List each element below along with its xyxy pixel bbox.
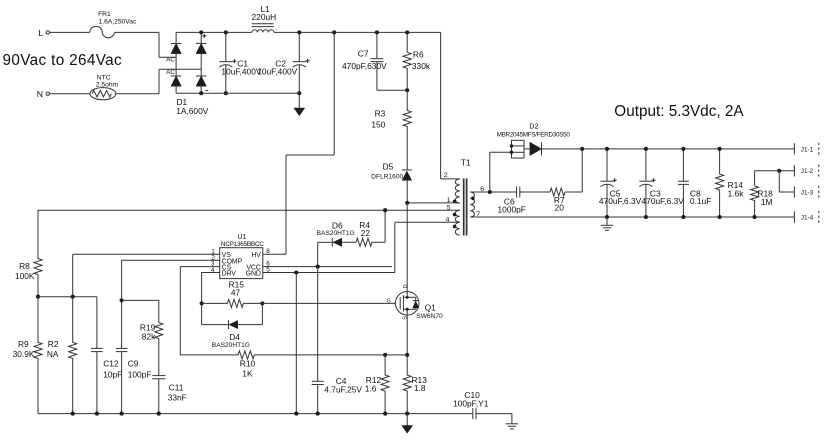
ground earth (Y-cap) — [511, 414, 513, 424]
wire drain — [406, 203, 408, 292]
svg-text:D2: D2 — [529, 123, 538, 130]
svg-text:J1-2: J1-2 — [801, 168, 814, 175]
resistor R19 82k — [155, 323, 163, 339]
connector J1-1 — [793, 143, 795, 154]
resistor R12 1.6 — [381, 355, 389, 414]
svg-text:470uF,6.3V: 470uF,6.3V — [642, 196, 685, 206]
wire output positive rail — [582, 148, 794, 150]
wire gate — [243, 302, 395, 304]
diode D5 DFLR1600 — [402, 169, 412, 171]
resistor R6 330k — [403, 32, 411, 90]
wire output return rail (pin7) — [470, 216, 794, 218]
node polarity dot secondary — [471, 197, 475, 201]
svg-text:82k: 82k — [142, 332, 156, 342]
wire D6 cathode to VCC — [317, 242, 319, 266]
node R2 / VS pin junction — [71, 295, 75, 299]
node bridge right bottom — [199, 91, 203, 95]
winding T1 primary (pins 2-1) — [455, 179, 460, 203]
diode D6 BAS20HT1G — [318, 241, 333, 243]
svg-text:33nF: 33nF — [168, 392, 187, 402]
node R8 bottom / VS net — [36, 295, 40, 299]
diode D4 BAS20HT1G — [201, 303, 203, 324]
diode D1d (bridge right bottom) — [196, 76, 206, 86]
svg-text:D6: D6 — [332, 221, 343, 231]
wire L to fuse — [50, 31, 90, 33]
svg-text:NA: NA — [47, 349, 59, 359]
resistor R15 47 — [202, 299, 244, 307]
svg-text:1.6A,250Vac: 1.6A,250Vac — [99, 18, 137, 25]
winding T1 aux lower (below pin 4) — [455, 222, 460, 235]
svg-text:FR1: FR1 — [98, 11, 111, 18]
svg-text:20: 20 — [555, 202, 565, 212]
wire C10 to earth — [476, 413, 512, 415]
svg-text:47: 47 — [231, 287, 241, 297]
capacitor C6 1000pF — [516, 187, 518, 198]
diode D2 MBR2045MFS/FERD30S50 package — [512, 140, 525, 158]
svg-text:DFLR1600: DFLR1600 — [371, 173, 403, 180]
svg-text:J1-1: J1-1 — [801, 146, 814, 153]
node R12 junction — [383, 353, 387, 357]
node GND rail junctions — [294, 412, 298, 416]
wire top DC rail (L1 to pin2 corner) — [274, 31, 441, 33]
diode D1b (bridge left bottom) — [171, 76, 181, 86]
fuse FR1 — [90, 26, 115, 38]
node source/R10/R13 junction — [405, 353, 409, 357]
svg-text:220uH: 220uH — [252, 12, 277, 22]
wire CS pin — [180, 266, 219, 268]
svg-text:470pF,630V: 470pF,630V — [342, 61, 387, 71]
svg-text:NCP1365BBCC: NCP1365BBCC — [221, 241, 265, 248]
svg-text:10uF,400V: 10uF,400V — [221, 67, 261, 77]
node C7 top — [375, 30, 379, 34]
ground primary (under C2) — [298, 93, 300, 108]
capacitor C9 100pF — [121, 300, 123, 348]
wire C6 to R7 — [520, 191, 550, 193]
svg-text:1.6k: 1.6k — [728, 189, 745, 199]
resistor R4 22 — [342, 238, 385, 246]
ground primary (main) — [406, 414, 408, 426]
wire pin1 to D5/drain node — [407, 202, 460, 204]
svg-text:G: G — [387, 299, 391, 305]
svg-text:30.9K: 30.9K — [13, 349, 35, 359]
wire R7 to D2 cathode node — [565, 191, 582, 193]
svg-text:SW6N70: SW6N70 — [416, 313, 443, 320]
node VCC/D6/C4 junction — [316, 265, 320, 269]
resistor R13 1.8 — [403, 355, 411, 414]
connector J1-3 — [793, 186, 795, 197]
wire GND pin to aux return — [263, 272, 395, 274]
wire R4 to aux winding — [384, 210, 386, 242]
resistor R3 150 — [403, 90, 411, 170]
wire D5 anode to primary node — [406, 180, 408, 203]
svg-text:8: 8 — [266, 248, 270, 255]
wire D2 anode branch — [489, 152, 491, 192]
node polarity dot aux — [453, 213, 457, 217]
node C1 top — [224, 30, 228, 34]
transformer core — [464, 179, 467, 236]
svg-text:BAS20HT1G: BAS20HT1G — [212, 342, 250, 349]
capacitor C5 470uF,6.3V — [606, 149, 608, 181]
resistor R8 100K — [34, 210, 42, 297]
svg-text:4.7uF,25V: 4.7uF,25V — [324, 384, 362, 394]
svg-text:100pF: 100pF — [128, 370, 152, 380]
transistor Q1 SW6N70 — [395, 292, 419, 316]
wire top DC rail (bridge + to L1) — [176, 31, 252, 33]
resistor R7 20 — [550, 188, 565, 196]
wire primary DC bottom rail — [176, 92, 299, 94]
svg-text:1M: 1M — [761, 197, 773, 207]
winding T1 aux upper (pins 5-4) — [455, 210, 460, 222]
wire HV feed from DC bus — [333, 32, 335, 155]
diode D1c (bridge right top) — [196, 43, 206, 53]
node R6/C7/R3 junction — [405, 88, 409, 92]
svg-text:C11: C11 — [169, 382, 184, 392]
svg-text:AC: AC — [166, 57, 175, 64]
svg-text:C7: C7 — [358, 48, 369, 58]
bridge rectifier D1 package — [175, 32, 177, 93]
node GND branch — [294, 270, 298, 274]
svg-text:1A,600V: 1A,600V — [176, 106, 209, 116]
node C2 top — [297, 30, 301, 34]
node polarity dot pin1 side — [453, 200, 457, 204]
wire VS net — [38, 296, 97, 298]
capacitor C12 10pF — [96, 297, 98, 349]
resistor R2 NA — [69, 297, 77, 414]
capacitor C3 470uF,6.3V — [645, 149, 647, 181]
node D2 branch — [488, 190, 492, 194]
svg-text:1.6: 1.6 — [365, 384, 377, 394]
svg-text:T1: T1 — [461, 157, 471, 167]
svg-text:Output: 5.3Vdc, 2A: Output: 5.3Vdc, 2A — [614, 103, 744, 120]
capacitor C7 470pF,630V — [376, 32, 378, 58]
node pin1/D5/drain junction — [405, 201, 409, 205]
wire R18 to J1-2 — [755, 170, 795, 172]
svg-text:R10: R10 — [240, 359, 256, 369]
op-amp U1 NCP1365BBCC body — [220, 248, 263, 279]
resistor R9 30.9K — [34, 297, 42, 414]
svg-text:GND: GND — [246, 270, 261, 277]
wire VCC pin — [263, 266, 392, 268]
node polarity dot aux lower — [453, 225, 457, 229]
capacitor C8 0.1uF — [682, 149, 684, 181]
wire primary pin2 from top rail — [440, 32, 442, 179]
pin label - output of bridge — [205, 89, 208, 91]
wire source to sense — [406, 315, 408, 355]
wire VS pin to divider — [73, 253, 220, 255]
wire COMP to R19 — [122, 299, 159, 301]
wire GND branch to ground rail — [295, 273, 297, 414]
node DRV/R15/D4 junction — [200, 301, 204, 305]
svg-text:D: D — [403, 284, 409, 288]
inductor L1 220uH — [252, 30, 274, 33]
svg-text:10uF,400V: 10uF,400V — [257, 67, 297, 77]
svg-text:0.1uF: 0.1uF — [690, 196, 711, 206]
svg-text:D5: D5 — [383, 162, 394, 172]
thermistor NTC 2.5ohm — [90, 88, 116, 100]
svg-text:AC: AC — [166, 69, 175, 76]
svg-text:100pF,Y1: 100pF,Y1 — [453, 398, 489, 408]
wire pin6 to snubber — [470, 191, 516, 193]
svg-text:150: 150 — [371, 120, 385, 130]
capacitor C11 33nF — [158, 339, 160, 376]
svg-text:N: N — [37, 89, 43, 99]
wire pin4 to GND return — [395, 221, 460, 223]
svg-text:C12: C12 — [103, 359, 119, 369]
svg-text:2: 2 — [444, 172, 448, 179]
node J1-2/J1-3 branch — [777, 169, 781, 173]
svg-text:BAS20HT1G: BAS20HT1G — [317, 230, 355, 237]
svg-text:1000pF: 1000pF — [498, 204, 526, 214]
ground secondary (under C5) — [606, 217, 608, 225]
node COMP net junction — [120, 298, 124, 302]
resistor R14 1.6k — [716, 149, 724, 217]
capacitor C1 10uF,400V — [225, 32, 227, 61]
resistor R10 1K — [180, 351, 407, 359]
svg-text:1K: 1K — [242, 369, 253, 379]
wire D2 cathode to output rail — [542, 148, 583, 150]
node L terminal — [46, 31, 49, 34]
resistor R18 1M — [754, 171, 756, 186]
svg-text:2.5ohm: 2.5ohm — [96, 81, 119, 88]
svg-text:J1-4: J1-4 — [801, 214, 814, 221]
svg-text:D4: D4 — [229, 332, 240, 342]
wire N to NTC — [50, 93, 91, 95]
svg-text:10pF: 10pF — [103, 370, 122, 380]
svg-text:1.8: 1.8 — [414, 383, 426, 393]
capacitor C10 100pF,Y1 — [472, 408, 474, 419]
capacitor C2 10uF,400V — [298, 32, 300, 61]
svg-text:22: 22 — [361, 228, 371, 238]
svg-text:R2: R2 — [48, 339, 59, 349]
node C2 bottom — [297, 91, 301, 95]
svg-text:J1-3: J1-3 — [801, 189, 814, 196]
svg-text:R9: R9 — [18, 339, 29, 349]
svg-text:HV: HV — [251, 252, 261, 259]
node snubber/output junction — [580, 147, 584, 151]
node R15/gate junction — [260, 301, 264, 305]
node C1 bottom — [224, 91, 228, 95]
connector J1-2 — [793, 165, 795, 176]
pin label + output of bridge — [202, 34, 206, 38]
wire branch to J1-3 — [778, 171, 780, 192]
svg-text:C9: C9 — [128, 359, 139, 369]
node HV feed on top rail — [332, 30, 336, 34]
wire fuse to bridge AC1 — [115, 31, 160, 33]
svg-text:Q1: Q1 — [425, 302, 437, 312]
capacitor C4 4.7uF,25V — [317, 267, 319, 382]
connector J1-4 — [793, 211, 795, 222]
winding T1 secondary (pins 6-7) — [470, 192, 474, 217]
svg-text:330k: 330k — [412, 61, 431, 71]
svg-text:L: L — [38, 28, 43, 38]
svg-text:R6: R6 — [413, 50, 424, 60]
svg-text:R3: R3 — [375, 109, 386, 119]
node N terminal — [46, 92, 49, 95]
diode D1a (bridge left top) — [171, 43, 181, 53]
svg-text:DRV: DRV — [222, 270, 237, 277]
wire aux pin5 — [38, 209, 460, 211]
svg-text:100K: 100K — [15, 271, 35, 281]
node bridge right top — [199, 30, 203, 34]
wire primary ground rail — [38, 413, 472, 415]
svg-text:MBR2045MFS/FERD30S50: MBR2045MFS/FERD30S50 — [497, 132, 571, 139]
svg-text:470uF,6.3V: 470uF,6.3V — [599, 196, 642, 206]
wire NTC to bridge AC2 — [116, 93, 159, 95]
svg-text:90Vac to 264Vac: 90Vac to 264Vac — [3, 52, 123, 69]
wire DRV pin — [202, 272, 220, 274]
wire COMP pin — [122, 259, 220, 261]
node rail junctions left — [71, 412, 75, 416]
svg-text:R8: R8 — [19, 261, 30, 271]
node R4/aux junction — [383, 208, 387, 212]
node R6 top — [405, 30, 409, 34]
svg-text:U1: U1 — [237, 234, 246, 241]
